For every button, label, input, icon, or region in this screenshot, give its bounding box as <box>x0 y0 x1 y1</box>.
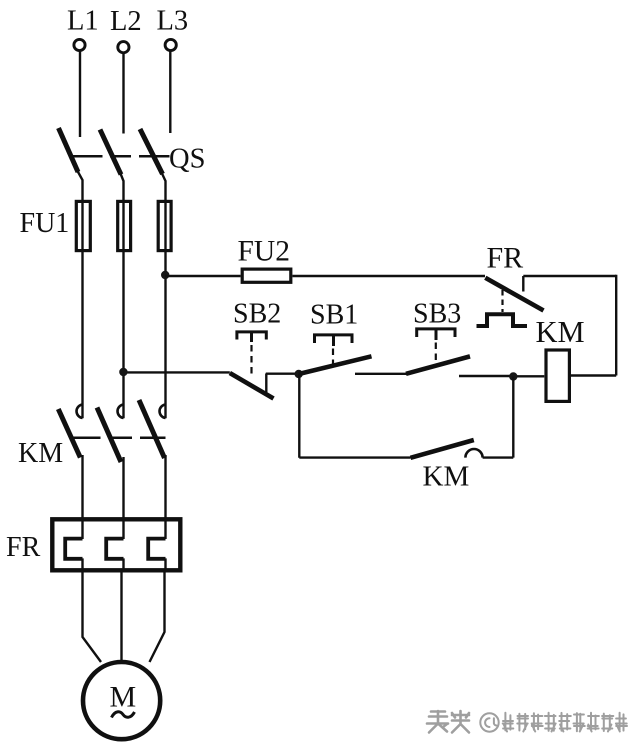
wire FR box to motor phase 1 <box>83 570 102 662</box>
motor tilde <box>112 712 135 718</box>
wire L3 to QS pole 3 <box>169 52 171 134</box>
terminal L1 <box>74 39 85 50</box>
wire QS pole 3 to fuse FU1c <box>162 174 166 201</box>
SB2 button cap <box>237 332 266 340</box>
FR heater element pole 1 <box>81 517 83 570</box>
pushbutton SB3 blade (NO) <box>406 356 470 373</box>
svg-text:FR: FR <box>487 242 524 275</box>
svg-text:L1: L1 <box>67 6 99 37</box>
wire KM pole 3 down <box>164 455 166 517</box>
wire node to KM coil <box>513 375 544 377</box>
pushbutton SB2 blade (NC stop) <box>230 373 274 399</box>
fuse FU1 pole 1 <box>76 201 90 250</box>
thermal relay FR NC contact blade <box>485 278 543 311</box>
svg-text:FR: FR <box>6 532 41 563</box>
SB1 actuator dashed <box>332 349 334 365</box>
wire fuse FU1b to KM pole 2 <box>122 200 124 418</box>
wire KM pole 2 down <box>122 457 124 517</box>
SB2 actuator dashed <box>250 345 252 374</box>
thermal relay FR heater box <box>52 519 180 570</box>
contactor KM main pole 3 semicircle <box>160 405 166 419</box>
terminal L3 <box>165 39 176 50</box>
svg-text:SB1: SB1 <box>310 300 358 331</box>
terminal L2 <box>118 42 129 53</box>
QS mechanical linkage dashed <box>73 155 170 158</box>
svg-text:KM: KM <box>423 461 470 493</box>
KM main linkage dashed <box>71 437 166 440</box>
wire node down to KM aux branch <box>298 374 300 458</box>
wire SB2 to node <box>266 373 299 375</box>
wire SB3 to node <box>459 375 513 377</box>
node L3 tap to control circuit <box>161 271 169 279</box>
FR heater element pole 3 <box>164 517 166 570</box>
wire KM aux riser up <box>512 377 514 458</box>
disconnect switch QS pole 1 blade <box>59 128 79 172</box>
wire FR box to motor phase 3 <box>150 570 165 662</box>
KM aux contact semicircle <box>465 449 482 458</box>
wire KM aux to riser <box>483 456 514 458</box>
wire L2 to QS pole 2 <box>122 54 124 134</box>
wire FR to right rail <box>523 275 616 277</box>
contactor coil KM <box>546 350 569 401</box>
contactor KM auxiliary contact blade <box>411 440 474 458</box>
svg-text:QS: QS <box>169 144 205 175</box>
FR actuator dashed link <box>501 290 503 312</box>
wire FU2 to FR contact <box>293 275 486 277</box>
KM main pole 2 blade <box>97 408 121 463</box>
SB3 cap stem <box>435 329 438 340</box>
FR contact fixed terminal stub <box>522 276 524 292</box>
wire L1 to QS pole 1 <box>79 52 81 138</box>
motor M circle <box>83 662 160 739</box>
fuse FU1 pole 3 <box>158 201 171 250</box>
wire fuse FU1a to KM pole 1 <box>81 200 83 418</box>
contactor KM main pole 1 semicircle <box>77 405 83 419</box>
contactor KM main pole 2 semicircle <box>118 405 124 419</box>
wire QS pole 2 to fuse FU1b <box>121 174 124 201</box>
wire KM aux branch bottom left <box>299 456 410 458</box>
svg-text:KM: KM <box>18 438 63 469</box>
node after SB2 <box>295 370 303 378</box>
svg-text:FU1: FU1 <box>20 208 70 239</box>
wire SB1 to SB3 <box>355 373 407 375</box>
SB3 actuator dashed <box>435 343 437 364</box>
wire KM pole 1 down <box>81 455 83 517</box>
FR heater element symbol <box>477 314 528 326</box>
fuse FU1 pole 2 <box>118 201 131 250</box>
svg-text:FU2: FU2 <box>238 236 290 268</box>
svg-text:L3: L3 <box>157 6 189 37</box>
KM main pole 3 blade <box>139 400 165 458</box>
SB1 cap stem <box>332 335 335 346</box>
svg-text:SB2: SB2 <box>233 299 281 330</box>
svg-text:L2: L2 <box>110 6 142 37</box>
svg-text:KM: KM <box>536 315 585 349</box>
disconnect switch QS pole 3 blade <box>140 129 163 174</box>
watermark 头条@河南松峰电气网络部 <box>427 711 627 733</box>
wire fuse FU1c to KM pole 3 <box>164 200 166 418</box>
fuse FU2 <box>242 269 291 282</box>
FR heater element pole 2 <box>122 517 124 570</box>
wire FR box to motor phase 2 <box>120 570 122 663</box>
wire right rail down <box>615 275 617 376</box>
pushbutton SB1 blade (NO start) <box>299 356 372 374</box>
node L2 tap <box>119 368 127 376</box>
node before KM coil <box>509 372 517 380</box>
SB2 cap stem <box>250 332 253 342</box>
wire right rail to KM coil <box>571 374 616 376</box>
disconnect switch QS pole 2 blade <box>100 130 121 175</box>
SB3 button cap <box>417 329 455 337</box>
svg-text:M: M <box>110 681 137 714</box>
SB1 button cap <box>315 335 353 343</box>
wire QS pole 1 to fuse FU1a <box>78 171 83 200</box>
wire L2 tap to SB2 <box>123 371 229 373</box>
KM main pole 1 blade <box>58 409 80 458</box>
wire tap to fuse FU2 <box>165 275 240 277</box>
svg-text:SB3: SB3 <box>413 299 461 330</box>
SB2 fixed terminal stub <box>265 374 267 394</box>
